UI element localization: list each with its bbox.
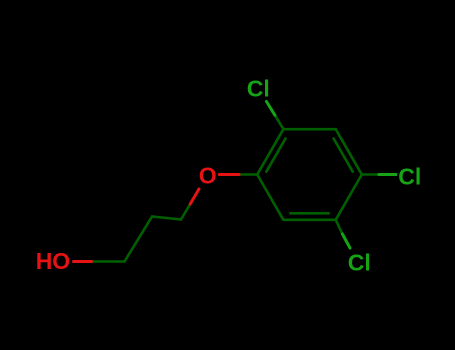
wire bond C5-Cl5 dark half xyxy=(336,220,343,234)
wire bond O-C1 dark half xyxy=(239,173,257,176)
wire bond C2-Cl2 green half xyxy=(266,101,275,115)
wire bond C1p-C2p xyxy=(125,217,153,262)
svg-text:Cl: Cl xyxy=(247,76,270,102)
svg-text:HO: HO xyxy=(36,248,70,274)
wire ring bond C1-C2 xyxy=(257,129,283,174)
wire ring bond C2-C3 xyxy=(283,128,335,131)
wire bond C4-Cl4 dark half xyxy=(362,173,379,176)
svg-text:Cl: Cl xyxy=(348,250,371,276)
svg-text:Cl: Cl xyxy=(398,163,421,189)
wire ring bond C3-C4 xyxy=(336,129,362,174)
wire inner double-bond line C1=C2 xyxy=(266,139,285,172)
wire bond O-C1 red half xyxy=(219,173,239,176)
wire bond HO-C1p dark half xyxy=(92,260,125,263)
wire bond C2p-C3p xyxy=(152,217,181,220)
wire ring bond C5-C6 xyxy=(283,219,335,222)
wire bond C2-Cl2 dark half xyxy=(275,115,284,129)
wire bond C5-Cl5 green half xyxy=(342,234,350,248)
wire inner double-bond line C5=C6 xyxy=(290,212,328,215)
wire ring bond C4-C5 xyxy=(336,175,362,220)
wire bond C3p-O dark half xyxy=(181,204,190,220)
wire bond C4-Cl4 green half xyxy=(379,173,396,176)
svg-text:O: O xyxy=(199,163,217,189)
wire bond C3p-O red half xyxy=(190,189,199,204)
wire inner double-bond line C3=C4 xyxy=(334,139,353,172)
wire bond HO-C1p red half xyxy=(74,260,92,263)
wire ring bond C6-C1 xyxy=(257,175,283,220)
